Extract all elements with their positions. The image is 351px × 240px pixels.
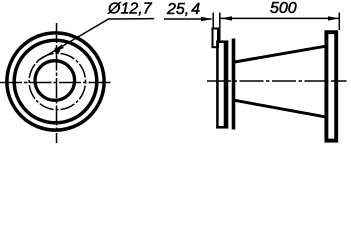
left flange plate bottom edge — [216, 126, 228, 129]
left flange plate left wall — [216, 41, 219, 129]
cone top edge — [235, 46, 326, 62]
extension line 1 (connector face) — [212, 13, 214, 30]
left flange plate top edge — [216, 40, 228, 43]
leader arrowhead at dot — [53, 44, 64, 52]
right flange plate — [326, 32, 336, 140]
cone back rim bar — [232, 39, 236, 130]
dimension line 500 — [221, 17, 340, 19]
leader line to feed dot — [38, 19, 154, 61]
feed point dot — [54, 47, 60, 53]
inner circle (waveguide throat) — [35, 61, 75, 101]
extension line 2 (flange face) — [219, 13, 221, 41]
coax connector stub — [213, 29, 219, 48]
left flange plate right wall — [224, 41, 229, 129]
dimension line 25,4 — [164, 18, 212, 20]
svg-text:25,4: 25,4 — [166, 1, 200, 18]
second circle (aperture inner rim) — [14, 40, 97, 123]
horizontal centerline of front view — [0, 82, 112, 84]
dash-dot bolt circle — [29, 53, 85, 109]
arrowhead 500 left — [221, 16, 233, 20]
outer circle of horn aperture — [7, 33, 104, 130]
svg-text:Ø12,7: Ø12,7 — [107, 1, 153, 18]
extension line 3 (right flange) — [338, 13, 340, 31]
cone bottom edge — [235, 100, 326, 117]
side view centerline — [207, 80, 347, 82]
arrowhead 25,4 pointing right — [201, 17, 213, 21]
svg-text:500: 500 — [270, 0, 297, 17]
arrowhead 500 right — [328, 16, 340, 20]
vertical centerline of front view — [56, 23, 58, 143]
